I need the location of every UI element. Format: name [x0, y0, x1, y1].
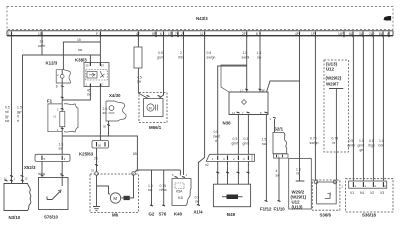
svg-text:0.3: 0.3 [233, 137, 238, 141]
svg-text:M6: M6 [112, 213, 119, 218]
wire label 4.5 on it [87, 89, 92, 97]
svg-text:15: 15 [38, 32, 42, 36]
svg-text:4F: 4F [136, 32, 140, 36]
pin 8L (x=383) [379, 32, 383, 38]
svg-text:gn/rt: gn/rt [358, 144, 365, 148]
svg-text:gy/: gy/ [17, 110, 22, 114]
svg-text:0.5: 0.5 [349, 139, 354, 143]
svg-text:sw: sw [78, 48, 83, 52]
svg-text:sw/rt: sw/rt [213, 135, 220, 139]
svg-text:X52/3: X52/3 [24, 165, 36, 170]
wire label 0.5 gn [157, 51, 164, 60]
svg-text:85: 85 [133, 152, 137, 156]
svg-text:11: 11 [200, 32, 204, 36]
fuse in M66/1 feed [134, 36, 148, 99]
svg-text:sw: sw [87, 93, 92, 97]
wire label 15 sw on bridge [77, 38, 83, 52]
wire down to G2 [151, 170, 153, 206]
svg-text:V2: V2 [370, 191, 374, 195]
svg-text:gy: gy [5, 115, 9, 119]
svg-text:sw/gn: sw/gn [207, 56, 216, 60]
svg-text:0.75: 0.75 [310, 137, 317, 141]
svg-text:2: 2 [181, 32, 183, 36]
wire pin F down with bridge to K12/3 [63, 36, 100, 70]
pin 8 below K12/3 [56, 84, 64, 88]
svg-text:0.5: 0.5 [5, 106, 10, 110]
wire bus pin 11 down to terminal X1/4 [198, 36, 204, 205]
svg-text:(W29/2): (W29/2) [326, 76, 342, 81]
wire K38/3 left bottom to F1 pin2 [62, 87, 90, 101]
N36 bottom wires to X2 [238, 115, 248, 155]
wire F1 down to X52/3 bar and right to M6 net [62, 132, 137, 170]
G2 terminal [149, 205, 155, 217]
wire net 15: long horizontal [23, 55, 101, 184]
fuse F1 box [47, 99, 78, 132]
svg-text:rt: rt [17, 115, 19, 119]
ground location plate W29/2 [289, 159, 312, 210]
S76 terminal [159, 205, 167, 217]
svg-text:F1: F1 [47, 99, 53, 104]
wire junction to M6 right pin and G2/S76/K40 [135, 170, 181, 172]
svg-text:F: F [96, 32, 98, 36]
svg-text:25: 25 [94, 157, 98, 161]
pin 14F (x=344) [338, 32, 344, 38]
wire label 4.5 sw [137, 76, 142, 84]
wire label 0.75 rt/sw [160, 184, 168, 192]
ground location box W29/7 dashed [324, 60, 349, 152]
svg-text:N36: N36 [223, 121, 232, 126]
bus bar of N43/3 connector [7, 31, 393, 36]
wire label 1.5 sw [257, 51, 262, 60]
svg-text:7F: 7F [175, 32, 179, 36]
wire bus 1F down to S36/6 [314, 36, 316, 181]
svg-text:5F: 5F [152, 32, 156, 36]
svg-text:rt/gn: rt/gn [368, 144, 375, 148]
terminal F1/10 [274, 201, 286, 212]
pin 7F (x=178) [175, 32, 179, 38]
svg-text:N43/3: N43/3 [196, 16, 208, 21]
svg-text:8: 8 [256, 32, 258, 36]
wire label 0.5 rd/gy [5, 106, 10, 124]
svg-text:K5: K5 [178, 195, 184, 200]
wire label 1.5 sw/bl [242, 51, 250, 60]
svg-text:4: 4 [276, 169, 278, 173]
pin 1F (x=172) [168, 32, 172, 38]
wire label 2.5 [103, 107, 108, 115]
terminal F1F12 [260, 201, 272, 212]
svg-text:2L: 2L [369, 32, 373, 36]
wire label 85 on x=137 [133, 152, 137, 156]
wire label 15 sw/rt [38, 40, 45, 49]
svg-text:1.5: 1.5 [243, 51, 248, 55]
pin 1 (x=204.6) [200, 32, 205, 38]
wire label 1.5 sw [59, 143, 64, 151]
pin 1F (x=315.4) [311, 32, 315, 38]
svg-text:1F: 1F [168, 32, 172, 36]
svg-text:K40: K40 [174, 212, 183, 217]
svg-text:G2: G2 [149, 212, 155, 217]
svg-text:M: M [149, 106, 152, 110]
tick [95, 165, 98, 166]
S2/1 wire down to F1/10 [278, 158, 280, 201]
wire labels [262, 138, 281, 178]
svg-text:N3/10: N3/10 [9, 215, 21, 220]
svg-text:rt: rt [17, 119, 19, 123]
wire label 0.5 sw/gn [207, 51, 216, 60]
logo mark top right [384, 16, 392, 21]
wire label 2 rt/bl on K40 bus wire [178, 51, 184, 60]
svg-text:X1/4: X1/4 [194, 210, 204, 215]
pin A (x=389) [387, 32, 390, 38]
control unit N5/10 [4, 176, 31, 220]
svg-text:sw: sw [137, 80, 142, 84]
pin 2L (x=373) [369, 32, 373, 38]
ABS unit N36 [221, 65, 268, 126]
pin 1 (x=11) [8, 32, 12, 38]
pin 8L (x=353) [349, 32, 353, 38]
svg-text:8: 8 [56, 84, 58, 88]
wire K25/63 down to M6 [96, 148, 98, 172]
svg-text:K38/3: K38/3 [75, 58, 87, 63]
svg-text:B49: B49 [227, 212, 236, 217]
svg-text:S76/10: S76/10 [44, 215, 58, 220]
svg-text:0.5: 0.5 [158, 51, 163, 55]
pin 2 (x=183.5) [181, 32, 184, 38]
N36 pin8 wire down to F1F12 [265, 115, 267, 202]
tick on wire above F1 [61, 96, 64, 99]
svg-text:A: A [384, 184, 386, 188]
svg-text:sw/gn: sw/gn [310, 141, 319, 145]
svg-text:f1: f1 [54, 115, 57, 119]
sensor B49 [213, 184, 250, 217]
svg-text:2F: 2F [242, 32, 246, 36]
control unit N43/3 dashed box [7, 7, 393, 30]
svg-text:sw: sw [262, 142, 267, 146]
svg-text:rt/sw: rt/sw [160, 188, 168, 192]
wires X52/3 down to S76/10 [42, 161, 62, 177]
svg-text:N1: N1 [360, 191, 364, 195]
relay K25/63 [79, 141, 109, 157]
wire labels right cluster [348, 139, 385, 152]
svg-text:sw/rt: sw/rt [38, 44, 45, 48]
svg-text:rt/bl: rt/bl [178, 56, 184, 60]
switch S76/10 [39, 175, 69, 220]
pin 5F (x=156) [152, 32, 156, 38]
svg-text:0.5: 0.5 [207, 51, 212, 55]
pin 4 (x=140) [136, 32, 140, 38]
pin 2 (x=246.7) [242, 32, 247, 38]
svg-text:1: 1 [8, 32, 10, 36]
svg-text:15: 15 [77, 38, 81, 42]
svg-text:K25/63: K25/63 [79, 152, 94, 157]
svg-text:S76: S76 [159, 212, 167, 217]
right bus wires down to S36/18 [353, 36, 383, 181]
wire bus to N36 pin 6F [259, 36, 261, 92]
svg-text:sw: sw [59, 147, 64, 151]
svg-text:8L: 8L [379, 32, 383, 36]
svg-text:1.5: 1.5 [262, 138, 267, 142]
svg-text:0.3: 0.3 [244, 137, 249, 141]
svg-text:(U13): (U13) [292, 204, 304, 209]
svg-text:F1/10: F1/10 [274, 207, 286, 212]
pin 8 (x=260) [256, 32, 260, 38]
svg-text:V1: V1 [350, 191, 354, 195]
svg-text:50: 50 [98, 143, 102, 147]
svg-text:F1f12: F1f12 [260, 207, 272, 212]
relay K38/3 [75, 58, 109, 87]
pin 4F (x=299.5) [295, 32, 300, 38]
svg-text:b/w: b/w [379, 144, 385, 148]
relay K12/3 [46, 61, 71, 84]
svg-text:2: 2 [180, 51, 182, 55]
terminal X1/4 [194, 205, 204, 215]
pin 15 (x=42) [38, 32, 42, 38]
wire labels rt/sw and rt [38, 172, 62, 176]
wire K38/3 right bottom down to K25/63 [99, 87, 101, 141]
junction tick wire 2 [21, 176, 24, 177]
svg-text:sw: sw [148, 188, 153, 192]
svg-text:6: 6 [160, 32, 162, 36]
wire label 1.5 gy/rt [17, 106, 22, 124]
svg-text:0.5: 0.5 [214, 130, 219, 134]
svg-text:sw: sw [195, 200, 200, 204]
svg-text:6F: 6F [262, 89, 265, 93]
junction tick wire 1 [10, 176, 13, 177]
pump M66/1 [139, 93, 167, 131]
svg-text:rt: rt [215, 139, 217, 143]
wire bus pin 4F down to ground plate W29 with N36 housing branch [267, 36, 300, 180]
svg-text:K5A: K5A [176, 190, 183, 194]
svg-text:X4/30: X4/30 [109, 93, 121, 98]
svg-text:3L: 3L [359, 32, 363, 36]
switch S2/1 [270, 117, 289, 159]
svg-text:sw: sw [276, 174, 281, 178]
svg-text:sw: sw [5, 119, 10, 123]
svg-text:14F: 14F [338, 32, 344, 36]
svg-text:1.0: 1.0 [379, 139, 384, 143]
svg-text:M: M [113, 196, 117, 201]
svg-text:V3: V3 [380, 191, 384, 195]
svg-text:M66/1: M66/1 [149, 125, 162, 130]
pin 6 (x=163) [160, 32, 164, 38]
svg-text:sw: sw [103, 111, 108, 115]
svg-text:gn: gn [360, 148, 364, 152]
wire K12/3 to fuse F1 [61, 83, 63, 104]
wire bus to M66/1 pin2 [159, 36, 164, 99]
svg-text:1.5: 1.5 [17, 106, 22, 110]
svg-text:gn/br: gn/br [348, 144, 357, 148]
wire label 2.5 [94, 157, 98, 161]
svg-text:gn/rt: gn/rt [232, 142, 239, 146]
svg-text:S36/18: S36/18 [362, 213, 376, 218]
motor M6 dashed box [90, 169, 139, 218]
svg-text:sw/bl: sw/bl [242, 56, 250, 60]
ground inside M6 [93, 207, 100, 211]
svg-text:gn/rt: gn/rt [157, 56, 164, 60]
relay K40 [172, 36, 191, 217]
svg-text:S2/1: S2/1 [274, 127, 284, 132]
wire from pin 1 down to N5/10 [11, 36, 13, 184]
svg-text:sw: sw [257, 56, 262, 60]
svg-text:1.5: 1.5 [257, 51, 262, 55]
X2 wires down to B49 [216, 161, 249, 184]
connector X2 bar [205, 154, 255, 167]
svg-text:8L: 8L [349, 32, 353, 36]
wire down to S76 [163, 170, 165, 206]
svg-text:4F: 4F [295, 32, 299, 36]
svg-text:U12: U12 [326, 67, 335, 72]
svg-text:0.75: 0.75 [332, 137, 339, 141]
wire from pin 15 down to junction [41, 36, 43, 55]
svg-text:W29/7: W29/7 [326, 82, 339, 87]
svg-text:1F: 1F [311, 32, 315, 36]
svg-text:x2: x2 [205, 163, 209, 167]
terminal X4/30 [103, 93, 126, 136]
connector S36/18 [342, 179, 394, 218]
wire labels 0.75 [310, 137, 339, 146]
wire K38/3 coil top feed [89, 55, 91, 63]
wire label 0.5 sw/rt on X2 branch [213, 130, 220, 143]
wire labels 0.3 gn/rt x2 [232, 137, 250, 146]
svg-text:gn/rt: gn/rt [243, 142, 250, 146]
wire label 1.5 [148, 184, 153, 192]
svg-text:0.5: 0.5 [369, 139, 374, 143]
wire W29/7 down to S36/6 [335, 152, 337, 180]
pin F (x=100) [96, 32, 100, 38]
svg-text:15: 15 [40, 40, 44, 44]
svg-text:K12/3: K12/3 [46, 61, 58, 66]
connector X52/3 bar [24, 154, 70, 170]
svg-text:S36/6: S36/6 [320, 213, 332, 218]
switch S36/6 [312, 180, 340, 218]
wire bus to N36 pin 17 with branch to X2 [218, 36, 247, 155]
svg-text:1.0: 1.0 [359, 139, 364, 143]
svg-text:rd/: rd/ [5, 110, 9, 114]
wire label 0.5 sw [195, 196, 200, 204]
pin 3L (x=363) [359, 32, 363, 38]
